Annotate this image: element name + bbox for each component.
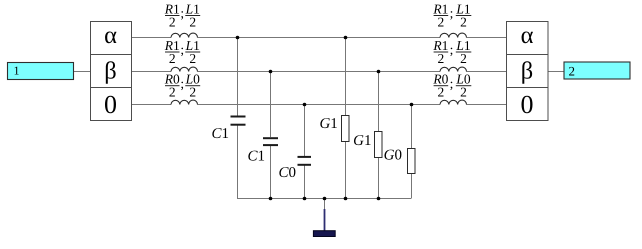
svg-text:C1: C1: [247, 149, 265, 165]
svg-text:;: ;: [180, 6, 184, 21]
svg-text:2: 2: [460, 51, 467, 66]
svg-text:;: ;: [180, 42, 184, 57]
svg-text:α: α: [521, 22, 534, 49]
svg-text:;: ;: [450, 6, 454, 21]
svg-text:2: 2: [438, 14, 445, 29]
svg-text:0: 0: [521, 90, 534, 119]
svg-text:G1: G1: [319, 116, 337, 132]
svg-text:;: ;: [180, 76, 184, 91]
svg-text:2: 2: [460, 14, 467, 29]
svg-text:2: 2: [438, 51, 445, 66]
svg-text:G1: G1: [353, 133, 371, 149]
svg-text:2: 2: [460, 85, 467, 100]
svg-text:β: β: [104, 57, 116, 84]
svg-text:;: ;: [450, 42, 454, 57]
svg-text:G0: G0: [384, 147, 402, 163]
svg-text:1: 1: [14, 64, 20, 78]
svg-text:2: 2: [189, 14, 196, 29]
svg-text:2: 2: [438, 85, 445, 100]
svg-text:;: ;: [450, 76, 454, 91]
svg-text:C1: C1: [211, 126, 229, 142]
svg-text:C0: C0: [278, 165, 296, 181]
svg-text:2: 2: [189, 85, 196, 100]
svg-text:2: 2: [189, 51, 196, 66]
svg-text:2: 2: [169, 51, 176, 66]
svg-text:2: 2: [169, 14, 176, 29]
svg-text:2: 2: [169, 85, 176, 100]
svg-text:β: β: [521, 57, 533, 84]
svg-text:0: 0: [104, 90, 117, 119]
svg-text:2: 2: [569, 64, 576, 79]
svg-text:α: α: [104, 22, 117, 49]
